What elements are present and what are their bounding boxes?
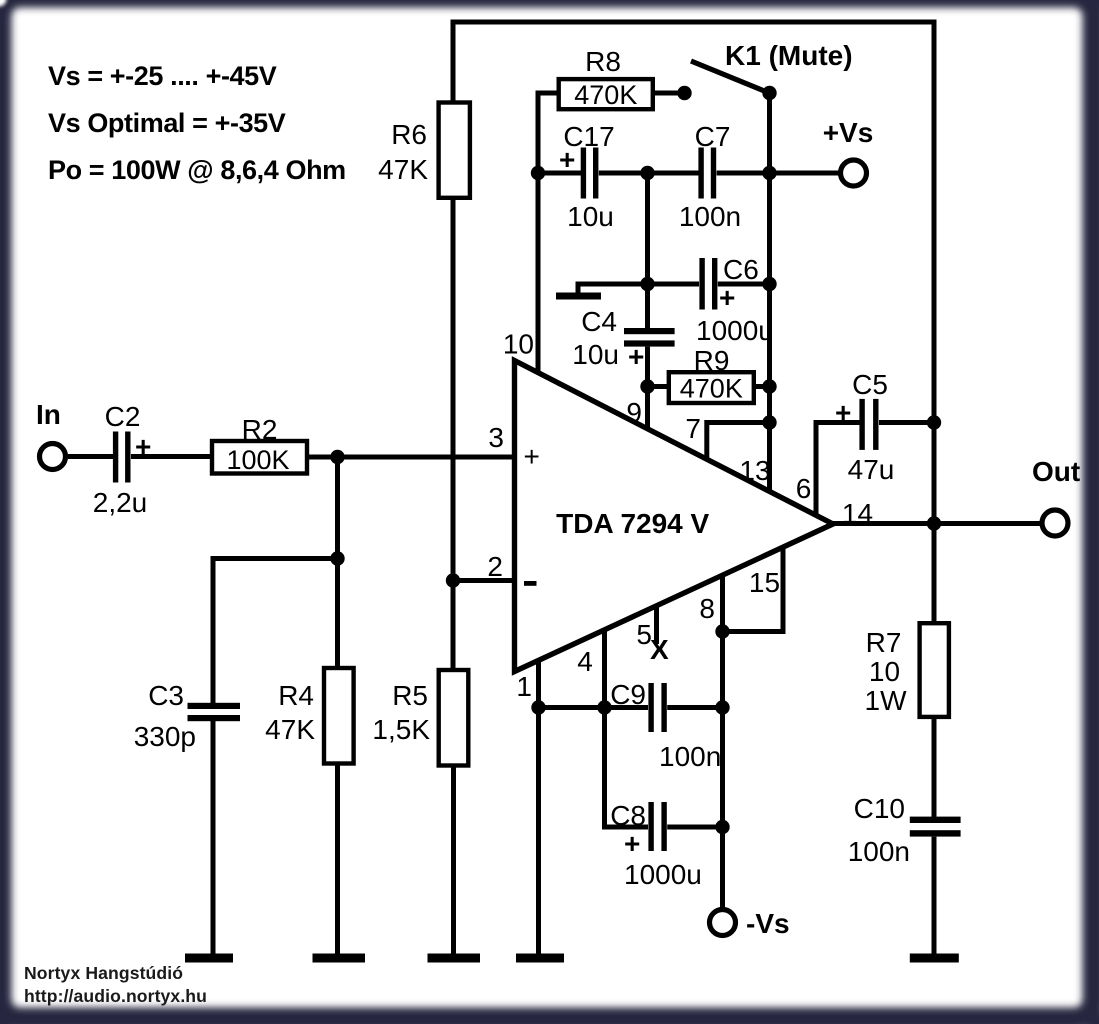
junction C5 bus <box>927 415 941 429</box>
svg-text:47u: 47u <box>848 454 895 485</box>
wire C4 node to C6 <box>648 282 700 287</box>
junction pin1 row <box>531 700 545 714</box>
wire C9 right <box>667 705 722 710</box>
svg-text:1000u: 1000u <box>624 859 702 890</box>
wire C10 to ground <box>932 837 937 957</box>
wire In to C2 <box>68 454 113 459</box>
svg-text:R7: R7 <box>866 627 902 658</box>
svg-text:R2: R2 <box>242 414 278 445</box>
junction pin7/13 <box>762 415 776 429</box>
svg-text:10u: 10u <box>572 339 619 370</box>
svg-text:C4: C4 <box>581 306 617 337</box>
wire node B to C3 branch <box>213 559 338 705</box>
svg-text:10: 10 <box>869 656 900 687</box>
resistor R9 <box>669 372 754 403</box>
capacitor C5 <box>859 399 878 450</box>
capacitor C7 <box>698 148 716 199</box>
wire C4 to pin 9 <box>645 347 650 428</box>
wire node A down <box>335 457 340 560</box>
wire R5 to ground <box>451 766 456 958</box>
svg-text:15: 15 <box>749 567 780 598</box>
switch K1 right contact <box>762 86 776 100</box>
resistor R2 <box>212 441 307 474</box>
svg-text:C3: C3 <box>148 680 184 711</box>
wire pin 2 <box>453 578 515 583</box>
wire R4 to ground <box>335 764 340 958</box>
resistor R6 <box>439 103 470 198</box>
svg-text:1000u: 1000u <box>696 315 774 346</box>
op-amp minus input mark <box>524 581 537 586</box>
wire node A to pin 3 <box>338 455 515 460</box>
terminal In <box>40 444 66 470</box>
wire pin 15 <box>723 548 784 632</box>
terminal Out <box>1042 510 1068 536</box>
svg-text:Vs = +-25 .... +-45V: Vs = +-25 .... +-45V <box>48 61 277 91</box>
pin 4 wire <box>602 630 607 708</box>
switch K1 lever <box>691 61 768 93</box>
junction C4 top <box>640 166 654 180</box>
svg-text:C2: C2 <box>105 401 141 432</box>
svg-text:R6: R6 <box>391 119 427 150</box>
svg-text:2,2u: 2,2u <box>93 487 148 518</box>
wire C9 left down to C8 <box>605 708 649 828</box>
wire R6 to pin2 node <box>451 198 456 671</box>
svg-text:C9: C9 <box>610 679 646 710</box>
wire pin 7 <box>707 423 770 461</box>
ground R4 <box>313 954 366 963</box>
wire C7 to +Vs <box>717 171 840 176</box>
svg-text:6: 6 <box>796 473 812 504</box>
wire rail to C17 <box>538 171 581 176</box>
svg-text:100n: 100n <box>679 201 741 232</box>
capacitor C8 <box>648 802 666 851</box>
svg-text:C10: C10 <box>854 793 905 824</box>
wire R9 right lead <box>754 384 770 389</box>
capacitor C4 <box>624 328 675 347</box>
wire K1 down to pin 13 <box>767 93 772 491</box>
junction pin8/15 <box>715 624 729 638</box>
svg-text:8: 8 <box>699 593 715 624</box>
pin 1 wire <box>536 660 541 957</box>
svg-text:http://audio.nortyx.hu: http://audio.nortyx.hu <box>24 986 207 1006</box>
svg-text:K1 (Mute): K1 (Mute) <box>725 40 853 71</box>
svg-text:+: + <box>524 441 540 472</box>
capacitor C3 <box>188 703 241 721</box>
wire top feedback <box>453 22 934 625</box>
wire R7 to C10 <box>932 717 937 818</box>
svg-text:R8: R8 <box>585 46 621 77</box>
node A junction <box>330 450 344 464</box>
svg-text:47K: 47K <box>265 714 315 745</box>
pin 8 wire down to -Vs <box>720 576 725 908</box>
wire C3 to ground <box>211 721 216 957</box>
junction K1 rail <box>762 166 776 180</box>
capacitor C17 <box>581 148 599 199</box>
junction ground branch <box>640 277 654 291</box>
resistor R8 <box>559 79 653 109</box>
junction output bus <box>927 516 941 530</box>
svg-text:4: 4 <box>577 646 593 677</box>
svg-text:In: In <box>36 399 61 430</box>
svg-text:-Vs: -Vs <box>746 908 790 939</box>
resistor R4 <box>324 668 354 764</box>
svg-text:7: 7 <box>685 413 701 444</box>
svg-text:TDA 7294 V: TDA 7294 V <box>556 508 709 539</box>
svg-text:3: 3 <box>488 422 504 453</box>
svg-text:+: + <box>624 828 640 859</box>
svg-text:X: X <box>650 634 669 665</box>
ground C10 <box>910 954 959 963</box>
wire C6 to K1 line <box>718 282 770 287</box>
svg-text:10u: 10u <box>567 201 614 232</box>
ground R5 <box>428 954 481 963</box>
svg-text:+: + <box>628 341 644 372</box>
wire C2 to R2 <box>131 454 212 459</box>
svg-text:+: + <box>835 397 851 428</box>
svg-text:+: + <box>719 282 735 313</box>
svg-text:100K: 100K <box>226 445 289 475</box>
junction C9 left <box>597 700 611 714</box>
svg-text:+Vs: +Vs <box>823 117 874 148</box>
svg-text:10: 10 <box>503 329 534 360</box>
junction pin2 node <box>446 573 460 587</box>
svg-text:Vs Optimal = +-35V: Vs Optimal = +-35V <box>48 108 286 138</box>
junction R9 left <box>640 379 654 393</box>
junction node B <box>330 551 344 565</box>
switch K1 left contact <box>677 86 691 100</box>
svg-text:470K: 470K <box>680 374 743 404</box>
ground pin1 <box>516 954 564 963</box>
wire C17 to C7 <box>599 171 699 176</box>
junction out bus lower / resistor R7 <box>920 623 949 717</box>
svg-text:R5: R5 <box>392 680 428 711</box>
svg-text:R9: R9 <box>694 345 730 376</box>
wire R8 right lead <box>653 91 678 96</box>
capacitor C9 <box>648 683 666 732</box>
svg-text:47K: 47K <box>378 154 428 185</box>
wire to ground symbol <box>578 284 648 293</box>
terminal -Vs <box>710 910 736 936</box>
wire C5 to bus <box>879 420 934 425</box>
svg-text:C7: C7 <box>695 121 731 152</box>
junction R9 right <box>762 379 776 393</box>
capacitor C2 <box>113 432 131 483</box>
capacitor C6 <box>699 258 717 310</box>
wire R2 to node A <box>307 455 340 460</box>
svg-text:Out: Out <box>1032 456 1080 487</box>
wire pin1 to C9 <box>539 705 649 710</box>
op-amp U1 TDA7294 <box>515 361 834 672</box>
svg-text:+: + <box>559 144 575 175</box>
svg-text:470K: 470K <box>574 80 637 110</box>
wire R9 left lead <box>648 384 669 389</box>
junction C8 right <box>715 820 729 834</box>
svg-text:2: 2 <box>487 551 503 582</box>
pin 5 stub <box>654 606 659 644</box>
ground C3 <box>185 954 233 963</box>
svg-text:Po = 100W @ 8,6,4 Ohm: Po = 100W @ 8,6,4 Ohm <box>48 155 346 185</box>
wire R8 left to rail and pin 10 <box>538 93 559 373</box>
wire output <box>833 521 1040 526</box>
wire node B to R4 <box>335 559 340 671</box>
svg-text:C6: C6 <box>723 254 759 285</box>
svg-text:1: 1 <box>516 671 532 702</box>
wire C17 node down to C4 <box>645 173 650 329</box>
junction C6 right <box>762 277 776 291</box>
svg-text:C5: C5 <box>852 369 888 400</box>
terminal +Vs <box>841 160 867 186</box>
svg-text:1,5K: 1,5K <box>372 714 430 745</box>
svg-text:R4: R4 <box>278 680 314 711</box>
svg-text:100n: 100n <box>659 741 721 772</box>
ground near C4 <box>556 293 601 300</box>
wire pin 6 <box>816 423 860 517</box>
capacitor C10 <box>910 817 961 837</box>
junction C9 right <box>715 700 729 714</box>
junction rail left <box>531 166 545 180</box>
svg-text:C8: C8 <box>610 800 646 831</box>
svg-text:Nortyx Hangstúdió: Nortyx Hangstúdió <box>24 963 183 983</box>
svg-text:100n: 100n <box>848 836 910 867</box>
svg-text:1W: 1W <box>865 685 908 716</box>
svg-text:330p: 330p <box>134 721 196 752</box>
wire C8 right <box>667 825 722 830</box>
svg-text:14: 14 <box>842 498 873 529</box>
resistor R5 <box>439 670 469 766</box>
